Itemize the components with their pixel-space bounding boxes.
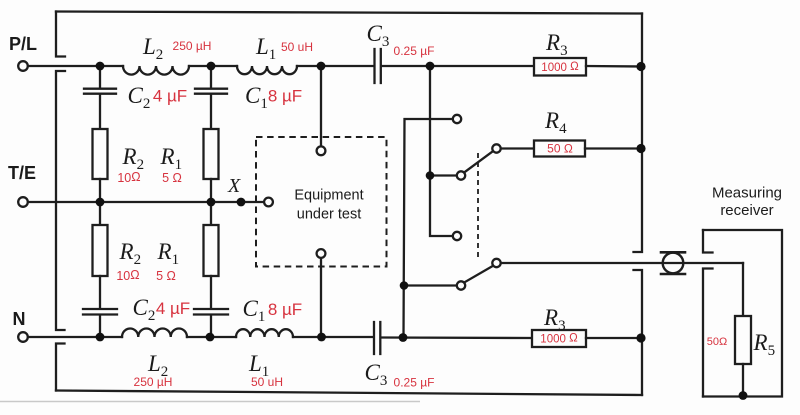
junction node P/L-C1 [207, 62, 216, 71]
svg-text:1000 Ω: 1000 Ω [540, 333, 578, 346]
wire P/L between L1 and C3 [297, 65, 374, 67]
junction node P/L-C2 [96, 62, 105, 71]
svg-text:4 µF: 4 µF [153, 87, 187, 106]
junction node N-C1 [206, 333, 215, 342]
terminal EUT left [264, 198, 273, 207]
svg-text:50 uH: 50 uH [251, 375, 283, 389]
wire N line left [28, 336, 122, 338]
capacitor C1 bottom plates [194, 309, 228, 315]
svg-text:under test: under test [297, 207, 362, 223]
svg-text:250 µH: 250 µH [173, 39, 212, 53]
wire C1 upper lead [210, 66, 212, 88]
svg-text:50Ω: 50Ω [707, 336, 727, 348]
svg-text:4 µF: 4 µF [156, 299, 190, 318]
svg-text:0.25 µF: 0.25 µF [394, 376, 435, 390]
wire lower switch pivot lead [404, 284, 457, 286]
wire N between C3 and R3 [381, 336, 532, 339]
wire receiver line from switch through connector [501, 262, 743, 264]
svg-text:X: X [227, 175, 241, 197]
svg-text:5 Ω: 5 Ω [156, 269, 176, 283]
terminal EUT bottom [317, 249, 326, 258]
resistor R3 bottom box [532, 330, 586, 347]
resistor R3 top box [534, 58, 586, 76]
wire P/L between C3 and R3 [382, 65, 534, 67]
dashed equipment under test box [256, 137, 387, 267]
wire upper switch arm [464, 151, 493, 173]
capacitor C2 bottom plates [83, 309, 117, 315]
svg-text:receiver: receiver [720, 202, 773, 219]
svg-text:50 uH: 50 uH [281, 40, 313, 54]
wire R2 to T/E upper [99, 179, 101, 202]
svg-text:T/E: T/E [8, 163, 36, 183]
switch contact A1 [453, 115, 461, 123]
wire receiver vertical to R5 [742, 263, 744, 316]
junction node lower switch pivot tap [400, 281, 409, 290]
measuring receiver box top and right and bottom [703, 230, 782, 397]
wire P/L node to upper switch vertical [430, 66, 453, 236]
svg-text:8 µF: 8 µF [268, 300, 302, 319]
wire C2 to R2 upper [99, 94, 101, 129]
junction node upper switch pivot tap [426, 171, 435, 180]
inductor L2 bottom coil [122, 328, 187, 337]
svg-text:Measuring: Measuring [712, 185, 782, 202]
wire N between L2 and L1 [187, 336, 236, 338]
switch contact A2 [453, 232, 461, 240]
outer enclosure left edge upper segment with tick [56, 12, 65, 57]
svg-text:5 Ω: 5 Ω [162, 171, 182, 185]
outer enclosure right edge upper segment with tick [634, 14, 643, 253]
wire switch contact A1 lead and vertical to N node [404, 119, 453, 338]
junction node X [237, 198, 246, 207]
switch throw T1 [492, 144, 500, 152]
wire upper switch pivot lead [430, 174, 457, 176]
switch pivot P1 [457, 171, 465, 179]
svg-text:0.25 µF: 0.25 µF [394, 44, 435, 58]
junction node T/E-R1 [207, 198, 216, 207]
resistor R2 top box [93, 129, 108, 179]
capacitor C1 top plates [195, 89, 227, 94]
wire T/E line [28, 201, 264, 203]
capacitor C3 top plates [375, 49, 381, 83]
svg-text:1000 Ω: 1000 Ω [541, 61, 579, 74]
wire N from R3 to right edge [586, 337, 642, 339]
terminal N [18, 332, 28, 342]
terminal EUT top [317, 146, 326, 155]
capacitor C2 top plates [84, 89, 116, 94]
junction node P/L-switch column [426, 62, 435, 71]
svg-text:8 µF: 8 µF [268, 87, 302, 106]
resistor R1 top box [204, 129, 219, 179]
coax connector top bar [661, 251, 685, 254]
resistor R2 bottom box [93, 225, 108, 276]
outer enclosure top border [56, 12, 642, 14]
coax connector circle [663, 253, 684, 274]
junction node receiver bottom [739, 391, 748, 400]
wire C2 upper lead [99, 66, 101, 88]
junction node T/E-R2 [96, 198, 105, 207]
wire T/E to R2 lower [99, 202, 101, 225]
inductor L1 top coil [237, 66, 297, 74]
junction node N-C2 [96, 333, 105, 342]
junction node N right edge [636, 333, 645, 342]
wire R4 to right edge [585, 147, 642, 149]
svg-text:N: N [13, 309, 26, 329]
wire R2 lower to C2 lower [99, 276, 101, 309]
wire P/L between L2 and L1 [189, 65, 237, 67]
inductor L2 top coil [123, 66, 189, 75]
coax connector bottom bar [661, 273, 685, 276]
wire N between L1 and C3 [293, 336, 374, 338]
svg-text:50 Ω: 50 Ω [547, 142, 573, 156]
wire R5 to receiver bottom [742, 364, 744, 396]
wire R1 to T/E upper [210, 179, 212, 202]
scan shadow line at bottom [0, 401, 420, 403]
wire lower switch arm [464, 266, 493, 283]
svg-text:P/L: P/L [9, 34, 37, 54]
outer enclosure left edge middle segment with ticks [56, 71, 65, 330]
dashed switch gang link [477, 153, 479, 259]
measuring receiver box left lower segment with tick [703, 269, 713, 397]
junction node N-switch column [399, 333, 408, 342]
wire R1 lower to C1 lower [210, 276, 212, 309]
wire C1 lower to N [210, 315, 212, 337]
wire C1 to R1 upper [210, 94, 212, 129]
wire T/E to R1 lower [210, 202, 212, 225]
junction node R4 right edge [636, 144, 645, 153]
svg-text:10Ω: 10Ω [117, 170, 140, 185]
wire EUT bottom lead [320, 258, 322, 337]
wire EUT top lead [320, 66, 322, 146]
switch throw T2 [492, 259, 500, 267]
junction node P/L-EUT [317, 62, 326, 71]
outer enclosure left edge lower segment [56, 344, 65, 391]
junction node N-EUT [317, 333, 326, 342]
inductor L1 bottom coil [236, 329, 293, 337]
measuring receiver box left upper segment with tick [703, 230, 713, 253]
switch pivot P2 [457, 281, 465, 289]
junction node P/L right edge [636, 62, 645, 71]
svg-text:10Ω: 10Ω [116, 268, 139, 283]
terminal P/L [18, 61, 28, 71]
resistor R5 box [735, 316, 751, 364]
terminal T/E [18, 197, 28, 207]
resistor R1 bottom box [204, 225, 219, 276]
outer enclosure bottom border [56, 391, 642, 396]
wire P/L line left [28, 65, 123, 67]
wire R4 left lead [501, 147, 534, 149]
capacitor C3 bottom plates [374, 322, 380, 354]
resistor R4 box [534, 141, 585, 157]
outer enclosure right edge lower segment with tick [634, 270, 643, 395]
svg-text:250 µH: 250 µH [134, 375, 173, 389]
svg-text:Equipment: Equipment [294, 188, 363, 204]
wire C2 lower to N [99, 315, 101, 337]
wire P/L from R3 to right edge [586, 65, 642, 68]
